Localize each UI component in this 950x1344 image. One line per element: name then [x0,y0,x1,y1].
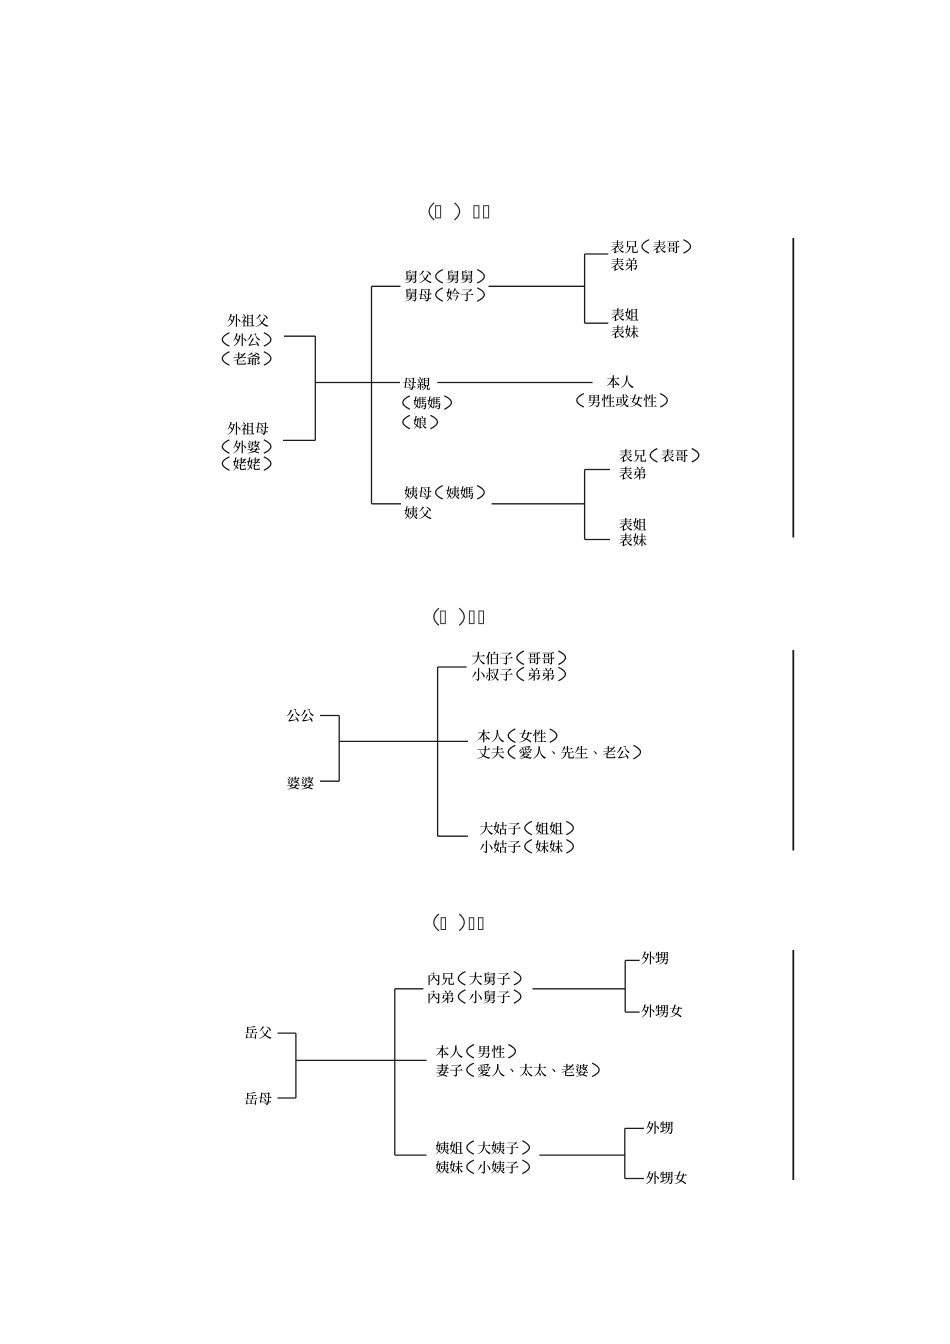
wire d2 left bracket vertical [338,716,340,782]
node niece 外甥女 lower [646,1171,687,1184]
node 內弟（小舅子） [429,990,521,1004]
node 外祖父 alias（外公） [222,333,271,347]
title section 1 [429,203,489,220]
node cousin 表弟 upper [611,258,638,271]
wire d3 center vertical [394,989,396,1155]
node self 本人 [607,375,634,388]
wire d1 cousins bracket 2 vertical [584,470,586,540]
node uncle-in-law 姨父 [405,506,432,519]
wire d2 branch to elder brother-in-law row [438,666,467,668]
node mother 母親 [403,377,430,390]
wire d3 nephews bracket A bottom branch [625,1011,639,1013]
wire d1 mother to self [437,382,592,384]
wire d2 公公 stub [320,715,339,717]
node cousin 表姐 upper [611,308,638,321]
wire d3 sisters-in-law to nephews bracket [539,1154,624,1156]
wire d1 center vertical [371,286,373,504]
node 外祖父 alias（老爺） [222,352,271,366]
node cousin 表妹 upper [611,325,638,338]
wire d1 trunk horizontal [315,382,400,384]
node maternal grandmother 外祖母 [228,422,269,435]
node aunt-in-law 舅母（妗子） [405,288,485,302]
node nephew 外甥 upper [642,952,669,965]
node cousin 表姐 lower [619,518,646,531]
wire d3 branch to sisters-in-law row [395,1154,427,1156]
node 姨姐（大姨子） [436,1141,530,1155]
node mother-in-law 婆婆 [287,777,314,790]
node cousin 表弟 lower [619,467,646,480]
wire d2 婆婆 stub [320,780,339,782]
node mother alias（媽媽） [403,396,452,410]
wire d2 trunk horizontal [339,740,468,742]
wire d1 aunt row to cousins bracket [492,503,585,505]
node husband 丈夫（愛人、先生、老公） [477,745,640,759]
wire d3 岳母 stub [278,1097,296,1099]
wire d3 nephews bracket B bottom branch [625,1178,644,1180]
node 小叔子（弟弟） [472,667,566,681]
wire d1 cousins bracket 1 bottom branch [585,322,609,324]
wire d3 nephews bracket B top branch [625,1127,644,1129]
node cousin 表兄（表哥）upper [611,240,691,254]
node 外祖母 alias（外婆） [222,440,271,454]
title section 3 [434,914,483,931]
node 內兄（大舅子） [429,972,521,986]
node 大伯子（哥哥） [472,651,566,665]
wire d1 cousins bracket 2 top branch [585,469,610,471]
node nephew 外甥 lower [646,1121,673,1134]
node self（男性或女性） [577,394,668,408]
node wife 妻子（愛人、太太、老婆） [436,1063,599,1077]
wire d1 cousins bracket 1 vertical [584,254,586,323]
wire d3 nephews bracket B vertical [624,1128,626,1178]
wire d1 branch to aunt row [372,503,402,505]
node wife-mother 岳母 [245,1092,272,1105]
title section 2 [434,608,484,625]
node self 本人（男性） [436,1045,516,1059]
wire d3 right margin rule [792,950,794,1180]
wire d1 right margin rule [792,238,794,538]
node father-in-law 公公 [287,709,314,722]
node aunt 姨母（姨媽） [405,486,485,500]
wire d3 nephews bracket A top branch [625,959,639,961]
wire d1 grandmother stub [283,439,315,441]
wire d3 brothers-in-law to nephews bracket [533,988,626,990]
node 外祖母 alias（姥姥） [222,457,271,471]
node cousin 表兄（表哥）lower [619,449,699,463]
wire d1 uncle row to cousins bracket [489,285,585,287]
node niece 外甥女 upper [642,1005,683,1018]
node 大姑子（姐姐） [480,821,574,835]
wire d1 branch to uncle row [372,285,401,287]
wire d3 trunk horizontal [296,1059,427,1061]
node cousin 表妹 lower [619,533,646,546]
wire d1 cousins bracket 1 top branch [585,253,609,255]
node wife-father 岳父 [245,1026,272,1039]
wire d2 branch to sister-in-law row [438,835,468,837]
node uncle 舅父（舅舅） [405,270,485,284]
wire d1 grandfather stub [284,335,315,337]
node mother alias（娘） [403,415,438,429]
wire d1 cousins bracket 2 bottom branch [585,539,610,541]
node maternal grandfather 外祖父 [228,314,269,327]
wire d3 branch to brothers-in-law row [395,988,424,990]
wire d2 right margin rule [792,650,794,851]
node 姨妹（小姨子） [436,1160,530,1174]
wire d1 left bracket vertical [314,336,316,440]
node 小姑子（妹妹） [480,840,574,854]
wire d2 center vertical [437,667,439,836]
node self 本人（女性） [477,729,557,743]
wire d3 岳父 stub [278,1032,296,1034]
wire d3 left bracket vertical [295,1033,297,1098]
wire d3 nephews bracket A vertical [624,960,626,1012]
